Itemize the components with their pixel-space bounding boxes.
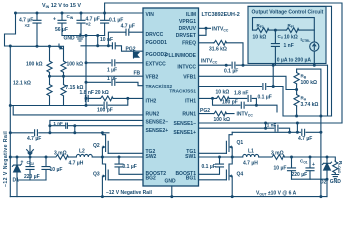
node Q3 source rail dot	[101, 195, 104, 198]
svg-text:×2: ×2	[25, 23, 31, 28]
node ith2 pin-side dot	[126, 97, 129, 100]
capacitor 10nF	[112, 43, 115, 49]
wire BG2	[108, 179, 143, 181]
svg-text:BG1: BG1	[186, 175, 197, 181]
svg-text:0.1 µF: 0.1 µF	[123, 164, 137, 170]
node Q4 source rail dot	[231, 195, 234, 198]
svg-text:1 nF: 1 nF	[284, 43, 294, 49]
capacitor 0.1uF track1	[263, 84, 266, 90]
node 220uF top dot	[309, 156, 312, 159]
svg-text:56 µF: 56 µF	[55, 27, 68, 33]
wire pgood filter bus vertical	[85, 36, 87, 106]
wire 100pF ith1 loop	[213, 98, 278, 112]
resistor 20k ith2	[100, 96, 113, 101]
capacitor 0.1uF boost2	[115, 157, 143, 174]
svg-text:TRACK/SS2: TRACK/SS2	[146, 84, 173, 89]
svg-text:ITH1: ITH1	[185, 99, 196, 105]
svg-text:1.8 nF: 1.8 nF	[234, 90, 248, 96]
resistor RF2	[256, 28, 269, 33]
wire output row left	[10, 156, 55, 158]
svg-text:Output Voltage Control Circuit: Output Voltage Control Circuit	[252, 10, 324, 16]
svg-text:GND: GND	[330, 179, 342, 185]
wire res1 top stub	[49, 46, 51, 60]
svg-text:L2: L2	[79, 149, 85, 155]
capacitor 1.8nF ith2	[85, 95, 88, 101]
wire rf1 right	[299, 29, 314, 31]
svg-text:100 pF: 100 pF	[222, 100, 238, 106]
node sense1+ cap dot	[288, 131, 291, 134]
svg-text:ILIM: ILIM	[186, 12, 196, 18]
svg-text:SW2: SW2	[146, 154, 157, 160]
capacitor 10uF right	[288, 157, 296, 179]
node filter bus top dot	[85, 34, 88, 37]
resistor 3mohm left	[55, 155, 68, 160]
wire SW2	[102, 156, 143, 158]
capacitor 1.8nF ith1	[248, 95, 251, 101]
node SW1 dot	[231, 156, 234, 159]
node SW2 dot	[101, 156, 104, 159]
svg-text:SENSE1–: SENSE1–	[173, 121, 196, 127]
wire RUN2 row	[13, 106, 143, 115]
transistor Q4	[226, 157, 232, 197]
node 10uF top dot	[290, 156, 293, 159]
wire resistor top feed	[10, 46, 63, 60]
wire TRACK/SS2 cap row	[86, 82, 143, 85]
svg-text:DRVCC: DRVCC	[146, 32, 164, 38]
svg-text:Q3: Q3	[93, 172, 100, 178]
capacitor 0.1uF intvcc	[232, 62, 235, 68]
resistor 100k run1	[214, 111, 227, 116]
svg-text:SENSE2–: SENSE2–	[146, 119, 169, 125]
svg-text:1 nF: 1 nF	[267, 123, 277, 128]
wire control top rail	[253, 18, 315, 42]
node rail corner dot	[14, 12, 17, 15]
node sense1- tap dot	[264, 122, 267, 125]
svg-text:VFB1: VFB1	[183, 74, 196, 80]
wire TG1	[199, 152, 227, 154]
svg-text:1 nF: 1 nF	[53, 121, 63, 126]
svg-text:10 µF: 10 µF	[50, 167, 63, 173]
node sense2+ tie bottom dot	[73, 131, 76, 134]
node drv tie dot	[205, 27, 208, 30]
capacitor CV 1nF	[271, 30, 279, 65]
wire output caps bottom right	[292, 179, 328, 196]
node vout bus dot	[319, 115, 322, 118]
node extvcc bus dot	[85, 61, 88, 64]
wire VFB1 row	[199, 76, 297, 89]
wire sense2+ drain tie	[74, 126, 76, 133]
svg-text:×2: ×2	[86, 21, 92, 26]
node sense2- tap dot	[48, 131, 51, 134]
svg-text:Q4: Q4	[237, 172, 244, 178]
svg-text:BG2: BG2	[146, 175, 157, 181]
svg-text:100 pF: 100 pF	[97, 108, 113, 114]
diode D2 zener	[322, 157, 331, 179]
node 4.7uF bus dot	[319, 131, 322, 134]
node ith2 bus dot	[85, 97, 88, 100]
resistor R 100k left1	[47, 61, 52, 73]
svg-text:100 kΩ: 100 kΩ	[214, 117, 231, 123]
wire res2 bottom to mid	[63, 73, 65, 85]
node mid dot res2	[62, 75, 65, 78]
svg-text:0.1 µF: 0.1 µF	[224, 69, 238, 75]
node Q2 drain dot	[101, 131, 104, 134]
wire RA bottom row	[283, 87, 332, 117]
ground sw2 area	[27, 146, 34, 156]
node capA feed dot	[36, 45, 39, 48]
node bus 4.7uF dot	[9, 131, 12, 134]
node vin trace join dot	[296, 131, 299, 134]
svg-text:1 µF: 1 µF	[107, 76, 117, 82]
diode D1 zener	[12, 157, 21, 197]
node sense1+ drop dot	[264, 127, 267, 130]
svg-text:3 mΩ: 3 mΩ	[54, 151, 67, 157]
svg-text:SENSE1+: SENSE1+	[173, 130, 196, 136]
capacitor 1uF track2	[112, 79, 115, 85]
node ith1 join dot	[255, 104, 258, 107]
node D2 bottom dot	[326, 178, 329, 181]
svg-text:+: +	[312, 162, 315, 168]
wire SENSE2+ row	[50, 125, 143, 127]
wire input gnd bus	[62, 35, 105, 37]
wire BG1	[199, 179, 227, 181]
svg-text:PLLIN/MODE: PLLIN/MODE	[165, 53, 196, 59]
capacitor 4.7uF right	[302, 129, 305, 135]
node GND pin rail dot	[170, 195, 173, 198]
box output voltage control circuit	[248, 7, 326, 64]
svg-text:31.6 kΩ: 31.6 kΩ	[209, 47, 227, 53]
node drvcc join dot	[107, 44, 110, 47]
svg-text:RUN2: RUN2	[146, 112, 160, 118]
wire output row right	[285, 157, 336, 161]
node ith1 pin dot	[211, 97, 214, 100]
wire bottom rail	[10, 196, 327, 198]
svg-text:FB: FB	[134, 71, 141, 77]
node intvcc dotB	[242, 64, 245, 67]
node intvcc dotC	[272, 64, 275, 67]
svg-text:EXTVCC: EXTVCC	[146, 62, 167, 68]
svg-text:12.1 kΩ: 12.1 kΩ	[13, 80, 31, 86]
current source ICTRL	[310, 42, 319, 65]
wire RB top to vout bus	[297, 69, 321, 197]
capacitor 1uF extvcc	[112, 60, 115, 66]
wire vin upper branch	[248, 6, 332, 116]
node vout bus rail dot	[319, 195, 322, 198]
svg-text:1.8 nF: 1.8 nF	[80, 90, 94, 96]
wire VIN riser to top	[105, 3, 342, 123]
resistor 10k ith1	[216, 96, 229, 101]
resistor R 12.1k	[47, 84, 52, 96]
node intvcc dotA	[225, 64, 228, 67]
capacitor 0.1uF boost1	[199, 157, 224, 174]
svg-text:10 kΩ: 10 kΩ	[284, 35, 298, 41]
svg-text:3.74 kΩ: 3.74 kΩ	[301, 102, 319, 108]
capacitor 220uF left	[26, 157, 34, 180]
transistor Q1	[226, 132, 232, 157]
node boost1 tap dot	[218, 156, 221, 159]
svg-text:GND: GND	[165, 179, 177, 185]
node riser dot	[103, 12, 106, 15]
svg-text:VPRG1: VPRG1	[179, 19, 196, 25]
flag PG2	[134, 51, 139, 58]
svg-text:4.7 µF: 4.7 µF	[121, 24, 135, 30]
svg-text:PGOOD1: PGOOD1	[146, 40, 168, 46]
wire SENSE2- row	[50, 120, 143, 132]
wire DRVUV DRVSET tie	[199, 28, 211, 35]
svg-text:4.7 µH: 4.7 µH	[243, 161, 258, 167]
wire PGOOD2 10nF	[81, 46, 143, 51]
resistor Rload	[333, 161, 338, 175]
wire vin trace drop	[296, 123, 298, 132]
svg-text:0 µA to 200 µA: 0 µA to 200 µA	[277, 58, 312, 64]
svg-text:20 kΩ: 20 kΩ	[95, 90, 109, 96]
svg-text:0.1 µF: 0.1 µF	[202, 164, 216, 170]
node track intvcc tee dot	[272, 85, 275, 88]
wire TRACK/SS1 row	[199, 65, 283, 86]
capacitor 1nF sense left	[66, 123, 68, 128]
resistor R 100k left2	[61, 61, 66, 73]
wire EXTVCC cap row	[86, 62, 143, 64]
wire 7.15k bottom	[63, 96, 65, 105]
node cap B dot	[80, 12, 83, 15]
resistor R 7.15k	[61, 84, 66, 96]
capacitor 0.1uF input C	[101, 13, 109, 36]
node 100pF bus dot	[85, 104, 88, 107]
svg-text:–12 V Negative Rail: –12 V Negative Rail	[106, 190, 152, 196]
wire SENSE1+ row	[199, 128, 290, 132]
svg-text:3 mΩ: 3 mΩ	[271, 151, 284, 157]
svg-text:DRVUV: DRVUV	[179, 26, 197, 32]
wire SENSE1- row	[199, 122, 342, 124]
node 220uF left top dot	[29, 156, 32, 159]
svg-text:–12 V Negative Rail: –12 V Negative Rail	[3, 131, 9, 187]
wire ITH1 row	[199, 97, 257, 99]
wire left rail drop jog	[5, 13, 16, 46]
capacitor C 4.7uF x2 input B	[77, 13, 85, 36]
node mid dot res1	[48, 75, 51, 78]
node bus out left dot	[9, 156, 12, 159]
wire RUN1 row	[199, 113, 234, 115]
node D1 top dot	[16, 156, 19, 159]
node track2 bus dot	[85, 81, 88, 84]
wire Q1 drain bus	[232, 131, 321, 133]
node bus top tee dot	[9, 45, 12, 48]
wire 4.7uF mid row	[10, 132, 109, 134]
capacitor 100pF ith2	[104, 102, 107, 108]
wire VIN top rail	[16, 12, 144, 14]
svg-text:VIN: VIN	[146, 12, 155, 18]
resistor RA	[294, 90, 299, 117]
svg-text:1 µF: 1 µF	[107, 68, 117, 74]
svg-text:0.1 µF: 0.1 µF	[258, 95, 272, 101]
node bus gnd dot	[9, 104, 12, 107]
svg-text:LTC3892EUH-2: LTC3892EUH-2	[202, 12, 240, 18]
svg-text:100 kΩ: 100 kΩ	[67, 62, 84, 68]
IC U1 LTC3892EUH-2 body	[143, 8, 199, 186]
svg-text:+: +	[21, 160, 24, 166]
capacitor 100pF ith1	[241, 102, 244, 108]
ground input GND symbol	[77, 34, 84, 41]
svg-text:10 kΩ: 10 kΩ	[216, 90, 230, 96]
svg-text:100 kΩ: 100 kΩ	[301, 80, 318, 86]
capacitor 220uF right	[306, 157, 314, 179]
wire output caps bottom left	[17, 179, 46, 181]
svg-text:FREQ: FREQ	[182, 41, 196, 47]
node RB RA junction dot	[295, 88, 298, 91]
svg-text:VFB2: VFB2	[146, 74, 159, 80]
node 10nF gnd dot	[96, 34, 99, 37]
svg-text:220 µF: 220 µF	[292, 172, 308, 178]
transistor Q3	[102, 157, 108, 197]
wire signal gnd row	[10, 105, 86, 107]
resistor RB	[294, 69, 299, 89]
node sense2+ riser dot	[48, 124, 51, 127]
svg-text:INTVCC: INTVCC	[177, 65, 196, 71]
capacitor 10uF left	[42, 157, 50, 180]
wire SW1	[199, 156, 233, 158]
wire INTVCC row	[199, 65, 328, 116]
svg-text:DRVSET: DRVSET	[176, 33, 196, 39]
inductor L2	[68, 154, 102, 157]
svg-text:10 µF: 10 µF	[274, 166, 287, 172]
node intvcc dotD	[313, 64, 316, 67]
capacitor 1nF sense right	[275, 125, 278, 131]
svg-text:Q1: Q1	[237, 140, 244, 146]
svg-text:TRACK/SS1: TRACK/SS1	[169, 88, 196, 93]
svg-text:4.7 µF: 4.7 µF	[27, 136, 41, 142]
node 10nF left dot	[96, 44, 99, 47]
wire 10nF gnd drop	[97, 36, 99, 46]
node cap A dot	[36, 12, 39, 15]
node cv tap dot	[274, 29, 277, 32]
svg-text:PGOOD2: PGOOD2	[146, 52, 168, 58]
resistor 3mohm right	[272, 155, 285, 160]
svg-text:PG2: PG2	[126, 47, 136, 53]
svg-text:SW1: SW1	[185, 154, 196, 160]
svg-text:D2: D2	[320, 179, 327, 185]
wire 12.1k bottom	[49, 76, 51, 105]
svg-text:220 µF: 220 µF	[24, 174, 40, 180]
wire sense cap drop	[265, 123, 267, 128]
arrow rheostat left2	[59, 44, 62, 49]
svg-text:4.7 µH: 4.7 µH	[69, 161, 84, 167]
wire FREQ row	[199, 43, 243, 65]
svg-text:GND: GND	[64, 36, 76, 42]
svg-text:100 kΩ: 100 kΩ	[26, 62, 43, 68]
wire ITH2 row	[89, 97, 143, 99]
svg-text:4.7 µF: 4.7 µF	[298, 136, 312, 142]
transistor Q2	[102, 133, 108, 157]
svg-text:ITH2: ITH2	[146, 99, 157, 105]
resistor 31.6k freq	[214, 40, 227, 45]
svg-text:10 nF: 10 nF	[100, 37, 113, 43]
inductor L1	[232, 154, 271, 157]
node D2 top dot	[326, 156, 329, 159]
node vin trace tee dot	[296, 122, 299, 125]
capacitor 4.7uF drvcc	[108, 29, 143, 46]
node res1 top dot	[48, 45, 51, 48]
svg-text:+: +	[53, 17, 56, 23]
wire TG2	[108, 152, 143, 154]
wire rf2 left	[253, 29, 256, 31]
capacitor Cin 56uF	[58, 13, 66, 36]
wire IC gnd pin	[171, 186, 173, 197]
capacitor C 4.7uF x2 input A	[33, 13, 41, 46]
capacitor 4.7uF mid	[35, 130, 38, 136]
node boost2 tap dot	[118, 156, 121, 159]
resistor RF1	[286, 28, 299, 33]
svg-text:SENSE2+: SENSE2+	[146, 128, 169, 134]
node 10uF left top dot	[45, 156, 48, 159]
wire left bus vertical	[9, 46, 11, 197]
node RA bottom dot	[295, 115, 298, 118]
wire rf2-rf1 mid	[269, 29, 286, 31]
svg-text:Q2: Q2	[93, 143, 100, 149]
node Cin dot	[61, 12, 64, 15]
svg-text:RUN1: RUN1	[182, 112, 196, 118]
wire divider mid row	[50, 73, 144, 77]
node sense2+ tie top dot	[73, 124, 76, 127]
ground Rload	[332, 175, 339, 179]
wire 100pF loop	[86, 98, 128, 105]
svg-text:L1: L1	[248, 149, 254, 155]
svg-text:10 kΩ: 10 kΩ	[253, 35, 267, 41]
